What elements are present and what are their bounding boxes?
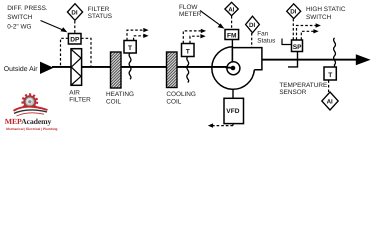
white wave mask below gear (11, 107, 49, 121)
svg-text:DI: DI (71, 9, 77, 16)
fan status DI diamond (246, 16, 260, 33)
svg-text:AI: AI (327, 98, 333, 105)
svg-text:VFD: VFD (226, 108, 239, 115)
wire fan to VFD (232, 89, 234, 99)
main duct wire (52, 66, 232, 68)
SP wire to controller (lower dashed arrow) (301, 31, 314, 40)
svg-text:FLOW: FLOW (179, 4, 198, 11)
SP probe into duct (288, 52, 298, 67)
heating coil (111, 52, 122, 88)
wire DI to SP (dashed riser) (292, 19, 294, 40)
wire AI to FM (dashed riser) (231, 16, 233, 29)
SP wire to controller (upper dashed arrow) (297, 26, 317, 40)
svg-text:FILTER: FILTER (69, 96, 91, 103)
temperature sensor probe squiggle (334, 38, 336, 67)
gear inner (25, 97, 34, 106)
svg-text:Status: Status (257, 37, 275, 44)
svg-text:SWITCH: SWITCH (306, 14, 332, 21)
wire DI to DP (dashed riser) (74, 21, 76, 33)
fan hub ring (227, 62, 240, 75)
svg-text:FM: FM (227, 32, 237, 39)
AI diamond flow (225, 2, 238, 15)
gear teeth (23, 95, 37, 109)
leader arrow to DP (41, 21, 64, 31)
leader arrow to FM (200, 11, 221, 26)
air filter (71, 49, 82, 86)
cooling coil (167, 52, 178, 88)
fan housing scroll arc (212, 47, 255, 90)
temperature sensor T box (324, 67, 336, 80)
svg-text:T: T (328, 72, 332, 79)
svg-text:COIL: COIL (166, 99, 181, 106)
svg-text:SENSOR: SENSOR (279, 89, 306, 96)
svg-text:STATUS: STATUS (88, 13, 112, 20)
svg-text:HEATING: HEATING (106, 91, 134, 98)
wire DI to fan outlet (dashed riser) (251, 33, 253, 48)
T sensor 1 (heating discharge) (124, 41, 136, 54)
DP left pressure tap wire (61, 38, 69, 66)
fan volute outlet outline (232, 48, 262, 70)
svg-text:SWITCH: SWITCH (7, 14, 33, 21)
svg-text:T: T (128, 45, 132, 52)
svg-text:TEMPERATURE: TEMPERATURE (279, 82, 327, 89)
SP box (high static switch) (292, 40, 303, 52)
wire T to AI (dashed riser) (328, 80, 330, 92)
fan hub dot (231, 66, 236, 71)
T2 wire to controller (lower dashed arrow) (190, 36, 202, 43)
T sensor 2 (cooling discharge) (182, 44, 195, 57)
svg-text:COOLING: COOLING (166, 91, 196, 98)
svg-text:Fan: Fan (257, 30, 268, 37)
svg-text:DIFF. PRESS.: DIFF. PRESS. (7, 5, 48, 12)
svg-text:T: T (186, 48, 190, 55)
MEPAcademy logo (5, 95, 58, 131)
T2 probe squiggle (187, 57, 189, 83)
wire FM to fan (231, 40, 233, 63)
duct stub into hub (226, 66, 233, 68)
svg-text:METER: METER (179, 11, 202, 18)
leader fan status to SP (282, 39, 291, 45)
svg-text:Mechanical | Electrical | Plum: Mechanical | Electrical | Plumbing (6, 127, 57, 131)
svg-text:DI: DI (249, 22, 255, 29)
VFD output wire (dashed with left arrow) (232, 124, 234, 126)
svg-text:SP: SP (293, 44, 302, 51)
DI diamond filter status (67, 4, 82, 21)
T1 probe squiggle (129, 53, 131, 79)
outside air intake arrow (40, 62, 54, 74)
discharge duct wire (262, 59, 358, 61)
DI diamond high static (287, 4, 301, 19)
gear ring (24, 96, 35, 107)
discharge duct arrowhead (356, 54, 371, 65)
svg-text:Outside Air: Outside Air (4, 66, 38, 73)
T1 wire to controller (lower dashed arrow) (134, 36, 145, 41)
svg-text:DP: DP (70, 37, 80, 44)
svg-text:MEPAcademy: MEPAcademy (5, 117, 52, 126)
red swoosh (14, 107, 48, 111)
DP right pressure tap wire (81, 38, 91, 66)
svg-text:0-2" WG: 0-2" WG (7, 24, 31, 31)
DP switch box (68, 34, 81, 45)
svg-text:AIR: AIR (69, 89, 80, 96)
wire FM to fan hub (inner) (231, 47, 233, 62)
svg-text:COIL: COIL (106, 99, 121, 106)
svg-text:DI: DI (290, 8, 296, 15)
T1 wire to controller (upper dashed arrow) (127, 30, 145, 40)
T2 wire to controller (upper dashed arrow) (183, 31, 202, 43)
svg-text:HIGH STATIC: HIGH STATIC (306, 6, 346, 13)
svg-text:FILTER: FILTER (88, 6, 110, 13)
VFD box (224, 98, 244, 123)
AI diamond temperature (322, 92, 338, 110)
dark swoosh (14, 110, 47, 113)
thin red swoosh (17, 113, 45, 116)
svg-text:AI: AI (228, 6, 234, 13)
FM box (225, 30, 239, 40)
